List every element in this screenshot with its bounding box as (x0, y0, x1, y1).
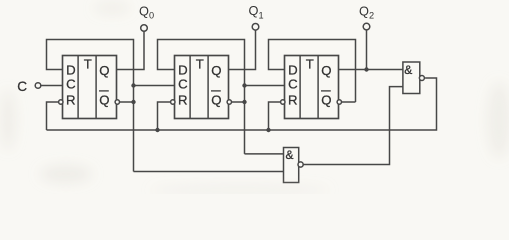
svg-text:D: D (288, 63, 298, 78)
svg-text:Q: Q (321, 92, 331, 107)
svg-text:Q: Q (99, 92, 109, 107)
svg-text:Q: Q (211, 92, 221, 107)
svg-text:D: D (66, 63, 76, 78)
svg-text:T: T (306, 57, 314, 72)
svg-text:&: & (404, 63, 412, 77)
svg-text:Q: Q (99, 63, 109, 78)
svg-text:R: R (66, 93, 76, 108)
svg-text:T: T (196, 57, 204, 72)
svg-text:C: C (66, 77, 76, 92)
svg-text:C: C (17, 79, 27, 94)
svg-text:R: R (288, 93, 298, 108)
svg-text:Q: Q (321, 63, 331, 78)
svg-text:R: R (178, 93, 188, 108)
svg-text:D: D (178, 63, 188, 78)
svg-text:C: C (178, 77, 188, 92)
svg-text:&: & (286, 148, 294, 162)
svg-text:T: T (84, 57, 92, 72)
svg-text:C: C (288, 77, 298, 92)
svg-text:Q: Q (211, 63, 221, 78)
